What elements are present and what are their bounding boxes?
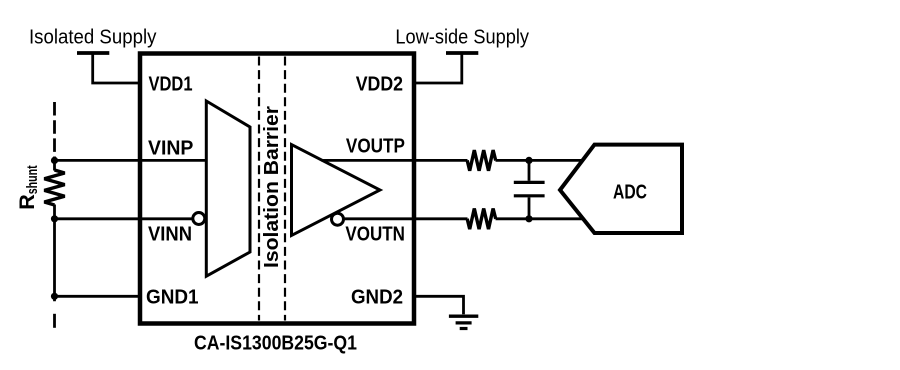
svg-text:Isolated Supply: Isolated Supply bbox=[29, 27, 156, 49]
wire: VOUTN resistor to ADC bbox=[496, 217, 583, 220]
svg-text:Isolation Barrier: Isolation Barrier bbox=[261, 106, 283, 268]
op-amp U1A input stage (trapezoid) bbox=[206, 101, 250, 276]
wire: shunt dashed stub (bottom) bbox=[53, 314, 56, 328]
wire: isolated supply to VDD1 pin bbox=[93, 53, 141, 83]
wire: shunt vertical (upper solid) bbox=[53, 157, 56, 171]
IC U1 box CA-IS1300B25G-Q1 bbox=[140, 54, 414, 324]
power rail bar (isolated supply) bbox=[77, 51, 109, 55]
inverting output bubble (VOUTN) bbox=[332, 213, 344, 225]
ADC block U2 bbox=[560, 145, 682, 233]
svg-text:VDD1: VDD1 bbox=[149, 74, 193, 96]
node: VINN junction bbox=[51, 215, 58, 222]
svg-text:VINP: VINP bbox=[148, 138, 193, 160]
capacitor C1 bottom plate bbox=[514, 194, 545, 197]
node: VOUTN junction bbox=[525, 215, 532, 222]
capacitor C1 top lead bbox=[528, 160, 531, 180]
wire: shunt vertical (lower solid) bbox=[53, 205, 56, 302]
capacitor C1 bottom lead bbox=[528, 197, 531, 218]
wire: VOUTN from bubble to resistor bbox=[343, 217, 468, 220]
svg-text:VOUTP: VOUTP bbox=[346, 136, 405, 158]
node: VOUTP junction bbox=[525, 157, 532, 164]
svg-text:VINN: VINN bbox=[148, 224, 192, 246]
resistor R2 (VOUTN filter) bbox=[467, 209, 496, 230]
svg-text:CA-IS1300B25G-Q1: CA-IS1300B25G-Q1 bbox=[194, 332, 357, 354]
wire: VOUTP resistor to ADC bbox=[496, 159, 584, 162]
capacitor C1 top plate bbox=[514, 181, 545, 184]
inverting input bubble (VINN) bbox=[193, 213, 205, 225]
resistor R1 (VOUTP filter) bbox=[467, 150, 496, 171]
svg-text:Rshunt: Rshunt bbox=[15, 165, 41, 210]
isolation barrier dashed line (left) bbox=[258, 57, 260, 321]
power rail bar (low-side supply) bbox=[446, 51, 478, 55]
svg-text:ADC: ADC bbox=[613, 182, 647, 204]
svg-text:GND2: GND2 bbox=[351, 286, 403, 308]
resistor Rshunt bbox=[44, 170, 64, 205]
ground symbol bar 1 bbox=[449, 315, 478, 318]
svg-text:Low-side Supply: Low-side Supply bbox=[395, 27, 529, 49]
wire: GND1 line bbox=[55, 295, 141, 298]
isolation barrier dashed line (right) bbox=[284, 57, 286, 321]
wire: VOUTP from amp to resistor bbox=[322, 159, 468, 162]
node: VINP junction bbox=[51, 157, 58, 164]
ground symbol bar 3 bbox=[460, 327, 468, 330]
op-amp U1B output stage (triangle) bbox=[292, 145, 381, 236]
wire: VINP line bbox=[55, 159, 207, 162]
svg-text:GND1: GND1 bbox=[146, 286, 199, 308]
wire: shunt dashed stub (top) bbox=[53, 102, 56, 155]
ground symbol bar 2 bbox=[456, 321, 472, 324]
node: GND1 junction bbox=[51, 293, 58, 300]
svg-text:VDD2: VDD2 bbox=[356, 74, 403, 96]
wire: VINN line bbox=[55, 217, 192, 220]
wire: GND2 to ground bbox=[413, 296, 464, 314]
svg-text:VOUTN: VOUTN bbox=[345, 224, 405, 246]
wire: VDD2 pin to low-side supply bbox=[413, 53, 462, 83]
